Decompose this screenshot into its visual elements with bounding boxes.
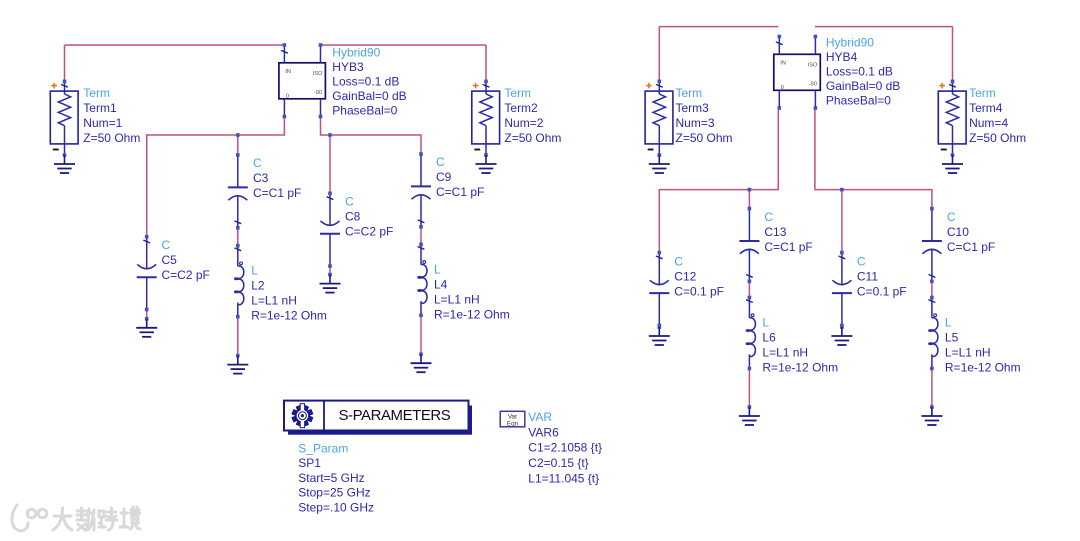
svg-text:L: L [251, 264, 258, 278]
svg-text:Hybrid90: Hybrid90 [332, 46, 380, 60]
svg-text:C13: C13 [764, 225, 786, 239]
svg-text:L=L1 nH: L=L1 nH [251, 294, 297, 308]
svg-text:C2=0.15 {t}: C2=0.15 {t} [528, 456, 588, 470]
svg-text:L6: L6 [762, 331, 776, 345]
svg-text:C: C [857, 254, 866, 268]
svg-text:C11: C11 [857, 269, 878, 283]
svg-text:-90: -90 [314, 90, 322, 96]
svg-text:C9: C9 [436, 170, 452, 184]
svg-text:Z=50 Ohm: Z=50 Ohm [676, 131, 733, 145]
svg-text:Hybrid90: Hybrid90 [826, 36, 874, 50]
svg-text:C=C1 pF: C=C1 pF [764, 240, 812, 254]
svg-text:Eqn: Eqn [507, 420, 519, 427]
svg-text:L=L1 nH: L=L1 nH [434, 292, 480, 306]
svg-text:Var: Var [508, 413, 517, 420]
svg-text:Term3: Term3 [676, 101, 710, 115]
svg-text:Term: Term [83, 86, 110, 100]
svg-text:SP1: SP1 [298, 456, 321, 470]
svg-text:L=L1 nH: L=L1 nH [762, 346, 808, 360]
svg-text:C=0.1 pF: C=0.1 pF [674, 284, 724, 298]
svg-text:Num=1: Num=1 [83, 116, 122, 130]
svg-text:HYB4: HYB4 [826, 50, 858, 64]
svg-text:Loss=0.1 dB: Loss=0.1 dB [332, 75, 399, 89]
svg-text:Loss=0.1 dB: Loss=0.1 dB [826, 65, 893, 79]
svg-text:C=C1 pF: C=C1 pF [436, 185, 484, 199]
svg-text:Num=3: Num=3 [676, 116, 715, 130]
svg-text:C: C [162, 238, 171, 252]
svg-text:L: L [762, 316, 769, 330]
svg-text:HYB3: HYB3 [332, 60, 364, 74]
svg-text:C: C [436, 155, 445, 169]
svg-text:L2: L2 [251, 279, 265, 293]
svg-text:L=L1 nH: L=L1 nH [945, 346, 991, 360]
svg-text:C12: C12 [674, 269, 696, 283]
svg-text:VAR: VAR [528, 410, 552, 424]
svg-text:C10: C10 [947, 225, 969, 239]
svg-text:ISO: ISO [808, 63, 818, 69]
svg-text:C1=2.1058 {t}: C1=2.1058 {t} [528, 441, 602, 455]
svg-text:GainBal=0 dB: GainBal=0 dB [826, 79, 900, 93]
svg-text:R=1e-12 Ohm: R=1e-12 Ohm [251, 309, 327, 323]
svg-text:Term2: Term2 [504, 101, 538, 115]
svg-text:Z=50 Ohm: Z=50 Ohm [969, 131, 1026, 145]
svg-text:S_Param: S_Param [298, 442, 348, 456]
svg-text:Step=.10 GHz: Step=.10 GHz [298, 500, 374, 514]
svg-text:Term: Term [504, 86, 531, 100]
svg-text:R=1e-12 Ohm: R=1e-12 Ohm [945, 361, 1021, 375]
svg-text:IN: IN [285, 69, 291, 75]
svg-text:L: L [434, 262, 441, 276]
svg-text:L: L [945, 316, 952, 330]
svg-text:R=1e-12 Ohm: R=1e-12 Ohm [762, 361, 838, 375]
svg-text:PhaseBal=0: PhaseBal=0 [332, 104, 397, 118]
svg-text:C: C [947, 210, 956, 224]
svg-text:C=C1 pF: C=C1 pF [947, 240, 995, 254]
svg-text:Z=50 Ohm: Z=50 Ohm [504, 131, 561, 145]
svg-text:Start=5 GHz: Start=5 GHz [298, 471, 364, 485]
svg-text:ISO: ISO [313, 71, 323, 77]
svg-text:C=C2 pF: C=C2 pF [162, 268, 210, 282]
svg-text:VAR6: VAR6 [528, 425, 559, 439]
svg-text:Term4: Term4 [969, 101, 1003, 115]
svg-text:PhaseBal=0: PhaseBal=0 [826, 94, 891, 108]
svg-text:-90: -90 [809, 82, 817, 88]
svg-text:C: C [345, 195, 354, 209]
svg-text:R=1e-12 Ohm: R=1e-12 Ohm [434, 307, 510, 321]
svg-text:C8: C8 [345, 210, 361, 224]
svg-text:0: 0 [286, 94, 289, 100]
svg-text:C=C1 pF: C=C1 pF [253, 186, 301, 200]
svg-text:Num=2: Num=2 [504, 116, 543, 130]
svg-text:C: C [764, 210, 773, 224]
svg-text:GainBal=0 dB: GainBal=0 dB [332, 89, 406, 103]
svg-text:L5: L5 [945, 331, 959, 345]
svg-text:Term: Term [969, 86, 996, 100]
svg-text:C=0.1 pF: C=0.1 pF [857, 284, 907, 298]
svg-text:L4: L4 [434, 277, 448, 291]
svg-text:C: C [253, 156, 262, 170]
svg-text:C: C [674, 254, 683, 268]
svg-text:Z=50 Ohm: Z=50 Ohm [83, 131, 140, 145]
svg-text:C=C2 pF: C=C2 pF [345, 225, 393, 239]
svg-text:S-PARAMETERS: S-PARAMETERS [339, 407, 451, 424]
svg-text:Stop=25 GHz: Stop=25 GHz [298, 486, 370, 500]
svg-text:Term1: Term1 [83, 101, 117, 115]
svg-text:Num=4: Num=4 [969, 116, 1008, 130]
svg-text:IN: IN [780, 61, 786, 67]
svg-text:C3: C3 [253, 171, 269, 185]
svg-text:C5: C5 [162, 253, 178, 267]
svg-text:0: 0 [781, 85, 784, 91]
svg-text:L1=11.045 {t}: L1=11.045 {t} [528, 472, 599, 486]
svg-text:Term: Term [676, 86, 703, 100]
